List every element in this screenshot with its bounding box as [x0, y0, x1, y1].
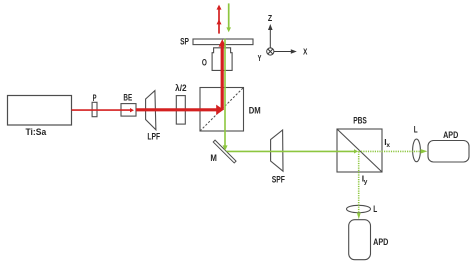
coordinate axes	[258, 13, 308, 63]
green arrow down to SP	[226, 3, 231, 32]
svg-text:y: y	[364, 178, 368, 185]
svg-text:APD: APD	[443, 130, 459, 140]
svg-text:λ/2: λ/2	[175, 83, 187, 93]
svg-text:SPF: SPF	[272, 174, 286, 184]
polarizer P	[92, 93, 97, 117]
wire green beam down SP to M	[224, 39, 226, 146]
svg-text:x: x	[386, 142, 390, 149]
svg-text:DM: DM	[249, 106, 261, 116]
lens LPF	[146, 91, 161, 142]
lens L right	[413, 125, 421, 162]
axis Z	[269, 27, 271, 48]
svg-text:SP: SP	[180, 36, 189, 46]
wire green beam M to PBS	[227, 150, 355, 152]
red arrowhead inside BE	[130, 108, 134, 112]
detector APD right	[428, 130, 469, 162]
laser Ti:Sa	[8, 96, 72, 138]
green arrowhead at PBS diagonal	[354, 149, 358, 153]
red double arrow above SP	[217, 5, 222, 34]
sample plane SP	[180, 36, 253, 46]
green arrowhead at M	[223, 145, 228, 150]
dichroic mirror DM	[200, 88, 261, 132]
lens L bottom	[347, 204, 378, 214]
red arrowhead at DM center	[216, 105, 223, 115]
beam expander BE	[121, 93, 136, 117]
red arrowhead at SP	[219, 39, 226, 46]
objective O	[202, 48, 232, 71]
wire thick red beam up DM to SP	[221, 46, 224, 110]
green arrowhead into right APD	[420, 149, 427, 154]
polarizing beam splitter PBS	[337, 115, 382, 172]
svg-text:PBS: PBS	[353, 115, 367, 125]
svg-text:Y: Y	[258, 53, 262, 63]
svg-text:L: L	[373, 204, 377, 214]
svg-text:Z: Z	[268, 13, 272, 23]
svg-text:LPF: LPF	[147, 132, 160, 142]
svg-text:P: P	[93, 93, 97, 103]
wire red thin beam Ti:Sa to BE	[72, 109, 131, 111]
green arrowhead into bottom APD	[357, 213, 361, 220]
axis X	[274, 51, 294, 53]
waveplate λ/2	[175, 83, 187, 124]
svg-text:M: M	[210, 153, 217, 163]
detector APD bottom	[349, 220, 389, 260]
svg-text:O: O	[202, 58, 207, 68]
wire thick red beam BE to DM	[136, 108, 217, 111]
svg-text:BE: BE	[123, 93, 132, 103]
svg-text:X: X	[303, 47, 307, 57]
svg-text:L: L	[414, 125, 418, 135]
axis Y into page	[267, 48, 274, 55]
wire dotted green beam Ix	[359, 150, 420, 152]
wire dotted green beam Iy	[358, 151, 360, 212]
svg-text:APD: APD	[373, 237, 389, 247]
mirror M	[210, 140, 236, 163]
filter SPF	[271, 130, 286, 184]
svg-text:Ti:Sa: Ti:Sa	[26, 127, 48, 137]
